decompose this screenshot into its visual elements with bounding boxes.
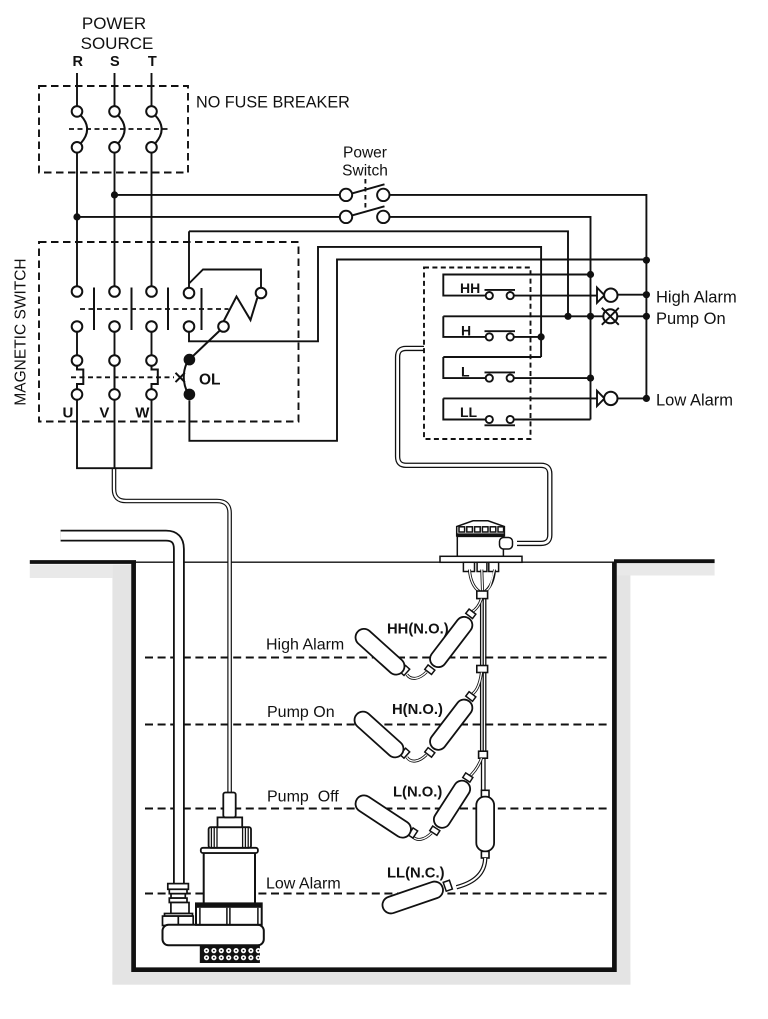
cable from float box to junction box: [398, 348, 550, 543]
wire H feed row (Pump On row): [443, 315, 603, 317]
svg-text:V: V: [99, 404, 109, 421]
wire V down: [114, 400, 116, 469]
water level dashed lines: [145, 658, 610, 894]
wire aux bottom loop: [189, 247, 541, 357]
overload relay arc: [184, 364, 187, 391]
label Power Switch: [342, 145, 388, 180]
wire phase S down: [114, 153, 116, 287]
overload trip cross: [176, 373, 185, 382]
wire row1 to right bus: [390, 195, 647, 399]
node pump on bus: [643, 313, 650, 320]
relay H loop: [443, 316, 485, 337]
contactor pole S contacts: [109, 286, 120, 297]
contactor pole T contacts: [146, 286, 157, 297]
soil shadow right column: [617, 565, 631, 985]
wire trip contact to OL: [193, 331, 220, 357]
low alarm buzzer: [597, 391, 605, 406]
node S tap: [111, 191, 118, 198]
wire aux top link (trapezoid): [189, 270, 261, 288]
wire T stub: [151, 73, 153, 106]
level labels: [266, 637, 344, 893]
svg-text:H(N.O.): H(N.O.): [392, 702, 443, 718]
node bus / OL output: [643, 257, 650, 264]
clamp 1: [477, 591, 488, 599]
strainer: [200, 945, 260, 963]
svg-text:R: R: [73, 54, 84, 70]
svg-text:HH: HH: [460, 280, 480, 296]
motor body: [204, 853, 255, 904]
contactor linkage (dashed): [80, 308, 229, 310]
node low alarm bus end: [643, 395, 650, 402]
relay HH loop: [443, 275, 590, 296]
svg-text:U: U: [62, 404, 73, 421]
wire LL top feed (Low Alarm row): [443, 397, 597, 399]
wire buzzer to bus end: [618, 397, 647, 399]
overload trip linkage (dashed): [71, 376, 174, 378]
contactor pole T bar: [167, 288, 169, 331]
thin line across pit mouth: [135, 561, 615, 563]
svg-text:Power: Power: [343, 145, 387, 162]
ballast weight on main cable: [481, 790, 489, 797]
overload heater R: [72, 355, 83, 366]
wire phase R down: [76, 153, 78, 287]
wire power row1 to switch: [115, 194, 340, 196]
svg-text:Low Alarm: Low Alarm: [656, 392, 733, 410]
wire buzzer to bus: [618, 294, 647, 296]
svg-text:Pump On: Pump On: [267, 704, 335, 721]
breaker pole S blade: [118, 115, 124, 143]
float labels: [387, 622, 449, 882]
soil shadow below floor: [112, 972, 630, 985]
svg-text:HH(N.O.): HH(N.O.): [387, 622, 449, 638]
ribbed cap: [209, 827, 251, 848]
svg-text:Pump Off: Pump Off: [267, 789, 339, 806]
svg-text:L(N.O.): L(N.O.): [393, 785, 442, 801]
label POWER SOURCE: [81, 14, 154, 53]
breaker NFB enclosure (dashed): [39, 86, 188, 173]
overload heater S: [109, 355, 120, 366]
relay LL contact (N.C.): [486, 416, 493, 423]
svg-text:T: T: [148, 54, 157, 70]
breaker pole T contacts: [146, 106, 157, 117]
breaker pole S contacts: [109, 106, 120, 117]
wire row2 to common feed: [390, 217, 591, 420]
relay L loop: [443, 357, 485, 378]
HH float assembly: [352, 599, 481, 679]
wire LL output: [514, 419, 591, 421]
node H output: [538, 333, 545, 340]
breaker trip linkage (dashed): [69, 128, 171, 130]
high alarm buzzer: [597, 288, 605, 303]
wire L output: [514, 377, 591, 379]
svg-text:Low Alarm: Low Alarm: [266, 876, 341, 893]
flange: [201, 848, 258, 853]
wire W down: [114, 400, 152, 469]
wire aux top to H feed column: [189, 231, 568, 316]
svg-text:OL: OL: [199, 372, 221, 389]
wire L top feed: [443, 356, 541, 358]
breaker pole R contacts: [72, 106, 83, 117]
svg-text:LL: LL: [460, 404, 478, 420]
relay LL loop: [443, 398, 485, 419]
ground surface thick right: [614, 559, 715, 563]
power switch pole1: [340, 189, 352, 201]
pit walls and floor: [134, 562, 615, 970]
wire power row2 to switch: [77, 216, 339, 218]
power switch pole2: [340, 211, 352, 223]
breaker pole R blade: [81, 115, 87, 143]
contactor aux contact circles: [184, 288, 195, 299]
contactor pole R contacts: [72, 286, 83, 297]
motor cable from panel to pump: [114, 468, 230, 793]
soil shadow under right surface: [617, 564, 715, 576]
node R tap: [73, 213, 80, 220]
wire HH output to high alarm: [514, 295, 597, 297]
overload heater T: [146, 355, 157, 366]
pump on lamp: [603, 309, 617, 323]
wire aux top riser: [188, 231, 190, 287]
node HH feed: [587, 271, 594, 278]
wire R stub: [76, 73, 78, 106]
ground surface thick left: [30, 560, 136, 564]
svg-text:LL(N.C.): LL(N.C.): [387, 866, 445, 882]
wire H output: [514, 336, 541, 338]
breaker pole T blade: [155, 115, 161, 143]
L float assembly: [352, 758, 481, 841]
magnetic switch enclosure (dashed): [39, 242, 299, 422]
power switch linkage (dashed): [364, 179, 366, 208]
svg-text:NO FUSE BREAKER: NO FUSE BREAKER: [196, 94, 350, 112]
H float assembly: [351, 673, 481, 762]
soil shadow under left surface: [30, 565, 113, 579]
svg-text:S: S: [110, 54, 120, 70]
contactor aux bar: [201, 288, 203, 330]
node high alarm bus: [643, 291, 650, 298]
relay H contact: [486, 333, 493, 340]
svg-text:Pump On: Pump On: [656, 310, 726, 328]
node L output: [587, 375, 594, 382]
wire phase T down: [151, 153, 153, 287]
collar: [218, 817, 243, 827]
LL float assembly: [380, 858, 485, 916]
casing: [196, 903, 262, 924]
discharge hose: [61, 536, 179, 884]
overload relay OL terminals: [184, 354, 196, 366]
clamp 2: [477, 666, 488, 673]
bundle below clamp1: [481, 599, 486, 666]
wire OL output to bus: [189, 260, 646, 441]
svg-text:L: L: [461, 364, 470, 380]
node H feed left: [564, 313, 571, 320]
wire lamp to bus: [617, 315, 646, 317]
svg-text:Switch: Switch: [342, 163, 388, 180]
gland cables converging to clamp: [470, 570, 495, 592]
float contact box enclosure (dashed): [424, 268, 531, 440]
cable spigot: [223, 793, 235, 818]
svg-text:W: W: [135, 404, 150, 421]
svg-text:MAGNETIC SWITCH: MAGNETIC SWITCH: [13, 258, 30, 405]
svg-text:High Alarm: High Alarm: [266, 637, 344, 654]
hose coupling flange: [163, 884, 194, 926]
wire U down: [77, 400, 114, 469]
svg-text:POWER: POWER: [82, 14, 146, 33]
contactor pole S bar: [131, 288, 133, 331]
trip contact circles: [256, 288, 267, 299]
relay L contact: [486, 375, 493, 382]
wire S stub: [114, 73, 116, 106]
node H feed right: [587, 313, 594, 320]
contactor pole R bar: [93, 288, 95, 331]
junction box: [440, 521, 522, 572]
relay HH contact: [486, 292, 493, 299]
soil shadow left column: [112, 565, 131, 985]
svg-text:High Alarm: High Alarm: [656, 289, 737, 307]
svg-text:SOURCE: SOURCE: [81, 34, 154, 53]
svg-text:H: H: [461, 323, 471, 339]
trip spring zigzag: [224, 297, 258, 322]
pump base: [163, 925, 264, 946]
clamp 3: [479, 751, 488, 758]
